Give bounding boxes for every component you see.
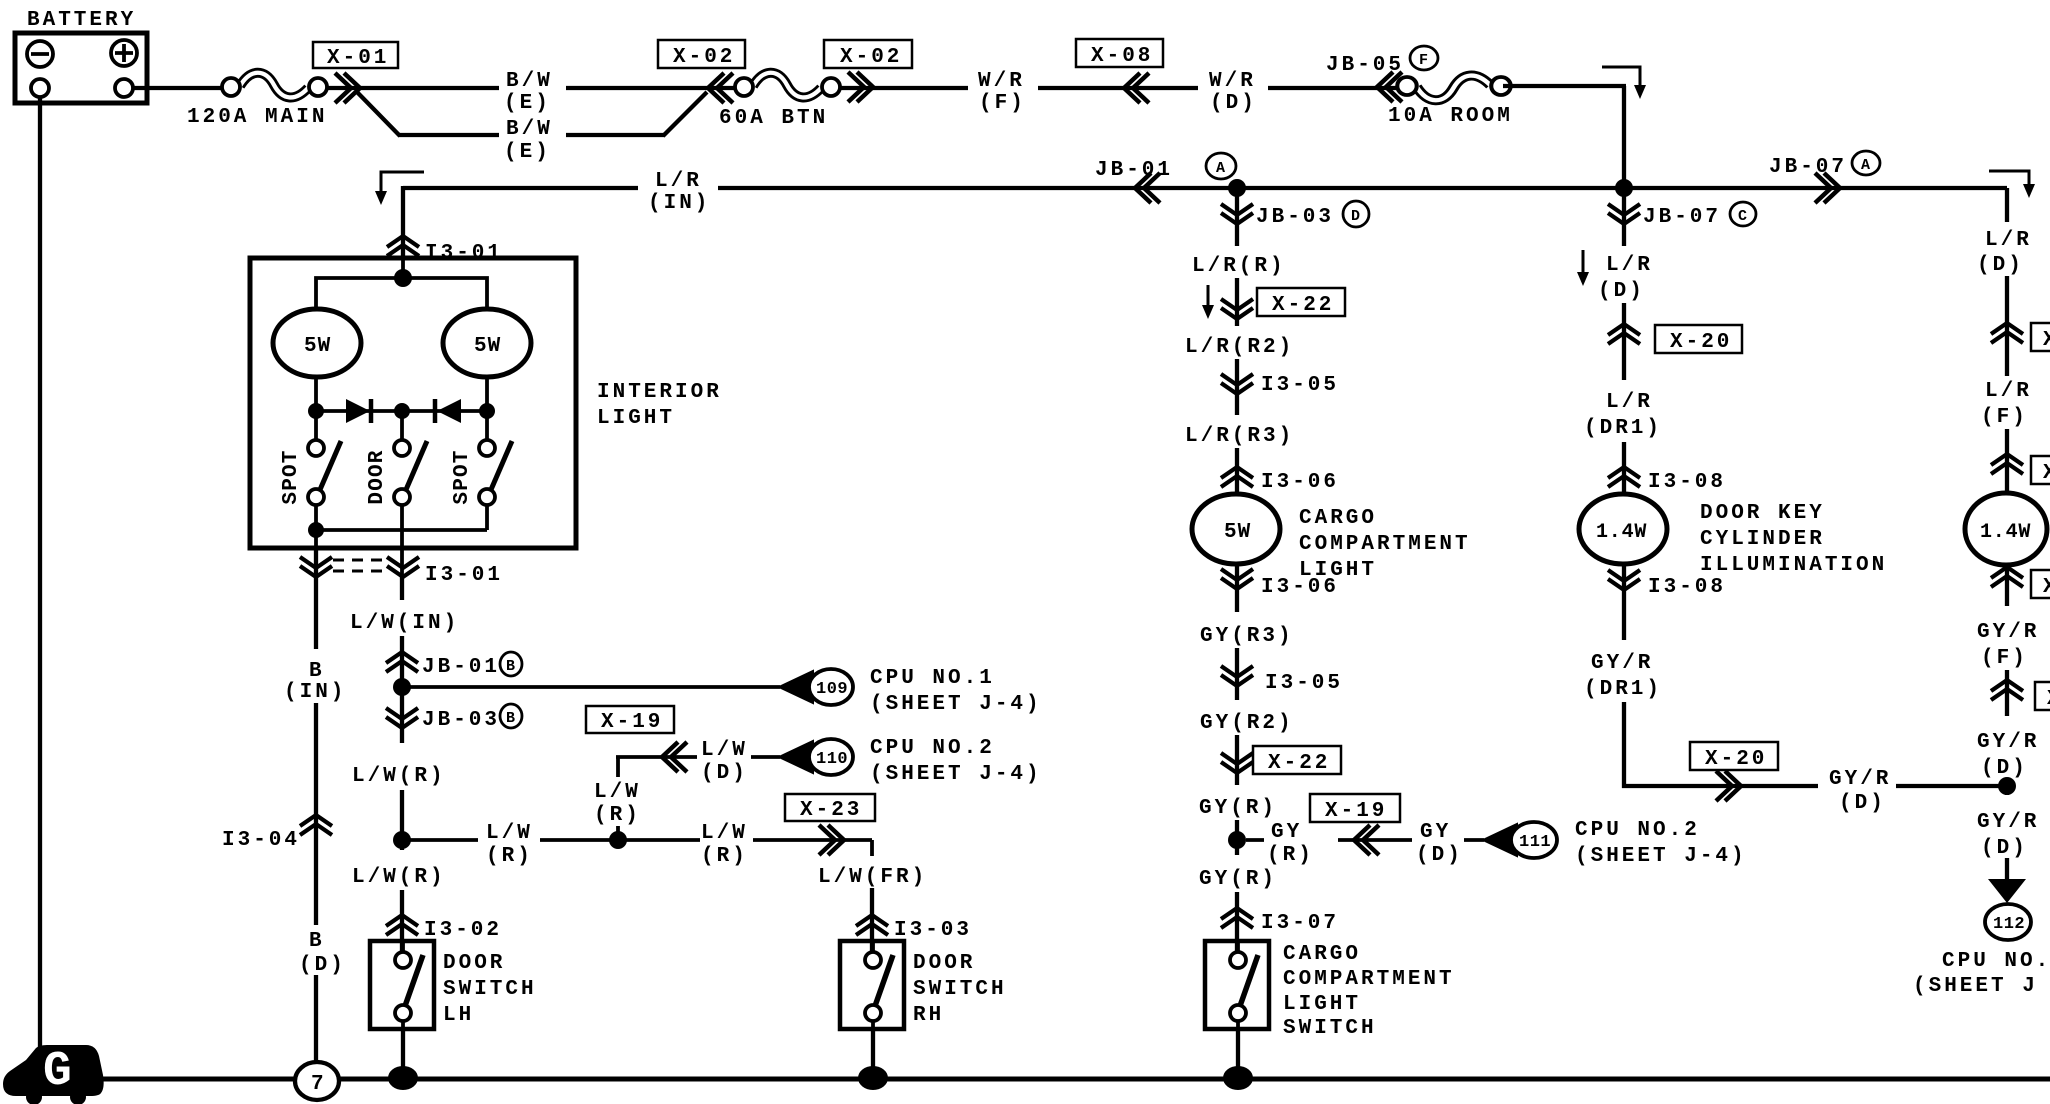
svg-text:F: F (1419, 52, 1428, 69)
wire B/W (E) lower branch (357, 92, 400, 136)
connector X-02 left (658, 40, 745, 68)
svg-text:CPU NO.: CPU NO. (1942, 950, 2050, 973)
wire room fuse to corner (1503, 84, 1626, 88)
svg-text:L/W(FR): L/W(FR) (818, 866, 927, 889)
wire corner to interior light (401, 186, 405, 258)
fuse 10A ROOM (1397, 76, 1510, 101)
svg-text:A: A (1216, 160, 1225, 177)
node junction feed/doorkey (1615, 179, 1633, 197)
svg-text:JB-07: JB-07 (1643, 206, 1721, 229)
svg-text:L/R: L/R (1606, 391, 1653, 414)
fuse 120A MAIN (222, 73, 327, 98)
svg-text:(SHEET J-4): (SHEET J-4) (1575, 845, 1747, 868)
node inner top (394, 269, 412, 287)
svg-text:GY/R: GY/R (1591, 652, 1653, 675)
svg-text:L/W: L/W (594, 781, 641, 804)
svg-text:109: 109 (816, 680, 848, 699)
svg-text:D: D (1351, 208, 1360, 225)
svg-text:1.4W: 1.4W (1980, 521, 2031, 544)
svg-text:X: X (2043, 329, 2050, 352)
svg-text:(SHEET J: (SHEET J (1913, 975, 2038, 998)
wire L/W (R) horizontal to X-23 (410, 838, 478, 842)
svg-text:BATTERY: BATTERY (27, 9, 136, 32)
wire switch bottoms (314, 505, 318, 577)
svg-text:DOOR: DOOR (366, 449, 389, 504)
svg-text:A: A (1861, 157, 1870, 174)
wire GY/R (F) (2005, 563, 2009, 606)
svg-text:L/R(R2): L/R(R2) (1185, 336, 1294, 359)
down arrow cargo (1207, 285, 1210, 310)
main feed line L/R (IN) (403, 186, 638, 190)
wire diode rail (316, 409, 487, 413)
svg-text:X-20: X-20 (1670, 331, 1732, 354)
svg-text:JB-01: JB-01 (422, 656, 500, 679)
svg-text:CARGO: CARGO (1299, 507, 1377, 530)
connector X-23 (785, 794, 875, 821)
svg-text:L/R(R): L/R(R) (1192, 255, 1286, 278)
svg-text:CYLINDER: CYLINDER (1700, 528, 1825, 551)
svg-text:10A ROOM: 10A ROOM (1388, 105, 1513, 128)
node junction CPU109 (393, 678, 411, 696)
door switch LH (370, 941, 434, 1029)
svg-text:X-22: X-22 (1272, 294, 1334, 317)
svg-text:I3-07: I3-07 (1261, 912, 1339, 935)
svg-text:(R): (R) (594, 804, 641, 827)
svg-text:LIGHT: LIGHT (1283, 993, 1361, 1016)
ground G car symbol (3, 1045, 104, 1096)
wire switch LH to ground (401, 1029, 405, 1079)
wire L/W (IN) (400, 577, 404, 600)
connector I3-05 lower (1221, 666, 1253, 686)
svg-text:GY/R: GY/R (1977, 621, 2039, 644)
svg-text:(SHEET J-4): (SHEET J-4) (870, 763, 1042, 786)
svg-text:DOOR: DOOR (443, 952, 505, 975)
wire inner top rail (316, 278, 487, 309)
node switch rail (308, 522, 324, 538)
svg-text:I3-01: I3-01 (425, 564, 503, 587)
connector JB-03 B (386, 708, 418, 728)
svg-text:(IN): (IN) (648, 192, 710, 215)
svg-text:(IN): (IN) (284, 681, 346, 704)
door switch RH (840, 941, 904, 1029)
connector I3-08 upper (1608, 467, 1640, 487)
svg-text:(R): (R) (486, 845, 533, 868)
wire B/W (E) upper (327, 86, 499, 90)
svg-text:I3-05: I3-05 (1265, 672, 1343, 695)
node junction L/W branch (393, 831, 411, 849)
svg-text:5W: 5W (1224, 521, 1251, 544)
svg-text:GY: GY (1271, 821, 1302, 844)
svg-text:(DR1): (DR1) (1584, 678, 1662, 701)
svg-text:60A BTN: 60A BTN (719, 107, 828, 130)
connector I3-05 upper (1221, 374, 1253, 394)
svg-text:(D): (D) (1981, 837, 2028, 860)
svg-text:SWITCH: SWITCH (443, 978, 537, 1001)
svg-text:B: B (309, 660, 325, 683)
connector I3-03 (856, 915, 888, 935)
connector X-19 right (1310, 794, 1400, 822)
svg-text:110: 110 (816, 750, 848, 769)
svg-text:SWITCH: SWITCH (913, 978, 1007, 1001)
svg-text:L/R: L/R (655, 170, 702, 193)
svg-text:L/W(IN): L/W(IN) (350, 612, 459, 635)
ground bus (98, 1077, 2050, 1082)
svg-text:CPU NO.2: CPU NO.2 (1575, 819, 1700, 842)
svg-text:X-02: X-02 (673, 46, 735, 69)
svg-text:L/R: L/R (1985, 229, 2032, 252)
svg-text:I3-05: I3-05 (1261, 374, 1339, 397)
svg-text:L/R(R3): L/R(R3) (1185, 425, 1294, 448)
CPU NO.2 callout 111 (1483, 824, 1517, 856)
wire to CPU 109 (402, 685, 780, 689)
svg-text:C: C (1738, 208, 1747, 225)
hook arrow top middle (1602, 67, 1640, 90)
bulb 5W right (443, 309, 531, 377)
svg-text:W/R: W/R (978, 70, 1025, 93)
svg-text:I3-08: I3-08 (1648, 471, 1726, 494)
svg-text:5W: 5W (304, 335, 331, 358)
svg-text:X-08: X-08 (1091, 45, 1153, 68)
svg-text:X-20: X-20 (1705, 748, 1767, 771)
svg-text:X: X (2043, 576, 2050, 599)
svg-text:CARGO: CARGO (1283, 943, 1361, 966)
diode D1 (346, 399, 370, 423)
svg-text:7: 7 (311, 1073, 327, 1096)
svg-text:L/W: L/W (701, 822, 748, 845)
svg-text:(D): (D) (299, 954, 346, 977)
cargo column wire from feed (1235, 188, 1239, 246)
node junction feed/cargo (1228, 179, 1246, 197)
svg-text:INTERIOR: INTERIOR (597, 381, 722, 404)
svg-text:(F): (F) (1981, 647, 2028, 670)
svg-text:X-22: X-22 (1268, 752, 1330, 775)
node diode rail right (479, 403, 495, 419)
node junction GY branch (1228, 831, 1246, 849)
connector JB-07 C (1608, 204, 1640, 224)
svg-text:GY/R: GY/R (1977, 731, 2039, 754)
svg-text:L/W(R): L/W(R) (352, 866, 446, 889)
svg-text:L/R: L/R (1606, 254, 1653, 277)
svg-text:(SHEET J-4): (SHEET J-4) (870, 693, 1042, 716)
svg-text:DOOR KEY: DOOR KEY (1700, 502, 1825, 525)
CPU NO.2 callout 110 (779, 741, 813, 773)
hook arrow left (381, 172, 424, 196)
svg-text:GY(R): GY(R) (1199, 797, 1277, 820)
connector JB-07 A (1624, 186, 2007, 190)
wire switch RH to ground (871, 1029, 875, 1079)
wire GY/R (DR1) (1622, 564, 1626, 640)
node diode rail left (308, 403, 324, 419)
diode D2 (437, 399, 461, 423)
svg-text:(R): (R) (1267, 844, 1314, 867)
ground point 7 (295, 1062, 339, 1100)
svg-text:SPOT: SPOT (280, 449, 303, 504)
svg-text:CPU NO.1: CPU NO.1 (870, 667, 995, 690)
node junction X-19 stub (609, 831, 627, 849)
svg-text:JB-03: JB-03 (1256, 206, 1334, 229)
svg-text:COMPARTMENT: COMPARTMENT (1283, 968, 1455, 991)
svg-text:111: 111 (1519, 833, 1551, 852)
svg-text:COMPARTMENT: COMPARTMENT (1299, 533, 1471, 556)
connector X-02 right (824, 40, 912, 68)
cargo compartment light bulb 5W (1192, 494, 1280, 564)
svg-text:GY(R2): GY(R2) (1200, 712, 1294, 735)
right column wire from feed (2005, 188, 2009, 222)
svg-text:I3-02: I3-02 (424, 919, 502, 942)
svg-text:B: B (309, 930, 325, 953)
svg-text:5W: 5W (474, 335, 501, 358)
connector I3-01 bottom pair (300, 557, 332, 577)
svg-text:ILLUMINATION: ILLUMINATION (1700, 554, 1887, 577)
svg-text:I3-06: I3-06 (1261, 576, 1339, 599)
svg-text:GY/R: GY/R (1829, 768, 1891, 791)
door key cylinder illumination bulb 1.4W (1579, 494, 1667, 564)
svg-text:1.4W: 1.4W (1596, 521, 1647, 544)
node ground LH (388, 1066, 418, 1090)
svg-text:LIGHT: LIGHT (597, 407, 675, 430)
connector X-22 lower (1221, 753, 1253, 773)
svg-text:B/W: B/W (506, 70, 553, 93)
wire cargo switch to ground (1236, 1029, 1240, 1079)
svg-text:(R): (R) (701, 845, 748, 868)
svg-text:(D): (D) (701, 762, 748, 785)
svg-text:B: B (506, 710, 515, 727)
svg-text:LH: LH (443, 1004, 474, 1027)
wire GY/R (D) horizontal (1622, 784, 1818, 788)
svg-text:CPU NO.2: CPU NO.2 (870, 737, 995, 760)
fuse 60A BTN (735, 73, 840, 98)
svg-text:I3-04: I3-04 (222, 829, 300, 852)
svg-text:(D): (D) (1598, 280, 1645, 303)
wire bulbs to diode rail (314, 377, 318, 440)
wire W/R (F) (840, 86, 968, 90)
svg-text:GY(R3): GY(R3) (1200, 625, 1294, 648)
svg-text:(E): (E) (504, 92, 551, 115)
CPU NO.1 callout 109 (779, 671, 813, 703)
wire L/W to X-19 (616, 757, 620, 777)
svg-text:112: 112 (1993, 915, 2025, 934)
connector JB-01 B (386, 652, 418, 672)
svg-text:I3-03: I3-03 (894, 919, 972, 942)
connector X-20 lower (1690, 742, 1778, 770)
svg-text:L/W(R): L/W(R) (352, 765, 446, 788)
wire battery+ to fuse (133, 86, 222, 90)
svg-text:W/R: W/R (1209, 70, 1256, 93)
svg-text:X-23: X-23 (800, 799, 862, 822)
wire GY (R) stub to X-19 (1246, 838, 1264, 842)
svg-text:X-19: X-19 (601, 711, 663, 734)
svg-text:(D): (D) (1210, 92, 1257, 115)
svg-text:(D): (D) (1981, 757, 2028, 780)
connector I3-08 lower (1608, 570, 1640, 590)
svg-text:(E): (E) (504, 141, 551, 164)
svg-text:X-19: X-19 (1325, 800, 1387, 823)
connector JB-03 D (1221, 204, 1253, 224)
connector X-22 upper (1221, 299, 1253, 319)
connector I3-02 (386, 915, 418, 935)
svg-text:GY(R): GY(R) (1199, 868, 1277, 891)
node junction right column (1998, 777, 2016, 795)
connector X-08 (1076, 39, 1163, 67)
hook arrow top right (1989, 171, 2029, 189)
svg-text:SWITCH: SWITCH (1283, 1017, 1377, 1040)
bulb 5W left (273, 309, 361, 377)
door key column wire (1622, 188, 1626, 246)
svg-text:I3-01: I3-01 (425, 242, 503, 265)
svg-text:L/R: L/R (1985, 380, 2032, 403)
svg-text:X-02: X-02 (840, 46, 902, 69)
wire L/W (R) (400, 687, 404, 743)
svg-text:DOOR: DOOR (913, 952, 975, 975)
svg-text:(F): (F) (1981, 406, 2028, 429)
down arrow doorkey (1582, 250, 1585, 277)
connector I3-01 top (387, 236, 419, 256)
connector I3-06 lower (1221, 569, 1253, 589)
wire battery minus down (38, 97, 42, 1047)
svg-text:(D): (D) (1416, 844, 1463, 867)
node ground RH (858, 1066, 888, 1090)
svg-text:(D): (D) (1977, 254, 2024, 277)
cargo compartment light switch (1205, 941, 1269, 1029)
svg-text:(DR1): (DR1) (1584, 417, 1662, 440)
interior light unit box (250, 258, 576, 548)
node diode rail mid (394, 403, 410, 419)
connector X right 4 (1991, 680, 2023, 700)
svg-text:B: B (506, 658, 515, 675)
svg-text:JB-07: JB-07 (1769, 156, 1847, 179)
CPU callout 112 (1985, 904, 2031, 940)
right bulb 1.4W (1965, 493, 2047, 565)
connector X right 3 (1991, 567, 2023, 587)
svg-text:JB-03: JB-03 (422, 709, 500, 732)
connector X-19 branch for CPU110 (586, 706, 674, 733)
svg-text:RH: RH (913, 1004, 944, 1027)
svg-text:GY: GY (1420, 821, 1451, 844)
svg-text:(D): (D) (1839, 792, 1886, 815)
svg-text:(F): (F) (979, 92, 1026, 115)
svg-text:L/W: L/W (486, 822, 533, 845)
svg-text:SPOT: SPOT (451, 449, 474, 504)
svg-text:X-01: X-01 (327, 47, 389, 70)
svg-text:I3-08: I3-08 (1648, 576, 1726, 599)
svg-text:B/W: B/W (506, 118, 553, 141)
connector X right 2 (1991, 454, 2023, 474)
node ground cargo (1223, 1066, 1253, 1090)
svg-text:X: X (2043, 462, 2050, 485)
svg-text:I3-06: I3-06 (1261, 471, 1339, 494)
connector X right 1 (1991, 323, 2023, 343)
arrow to CPU 112 (1988, 879, 2026, 903)
connector X-01 (313, 42, 398, 68)
svg-text:L/W: L/W (701, 739, 748, 762)
battery BT1 (15, 33, 147, 103)
svg-text:120A MAIN: 120A MAIN (187, 106, 327, 129)
svg-text:GY/R: GY/R (1977, 811, 2039, 834)
svg-text:JB-01: JB-01 (1095, 159, 1173, 182)
svg-text:G: G (43, 1045, 72, 1099)
wire GY(R3) (1235, 564, 1239, 612)
connector X-20 upper (1608, 324, 1640, 344)
wire B (IN) (314, 548, 318, 649)
connector I3-06 upper (1221, 467, 1253, 487)
connector I3-07 (1221, 908, 1253, 928)
